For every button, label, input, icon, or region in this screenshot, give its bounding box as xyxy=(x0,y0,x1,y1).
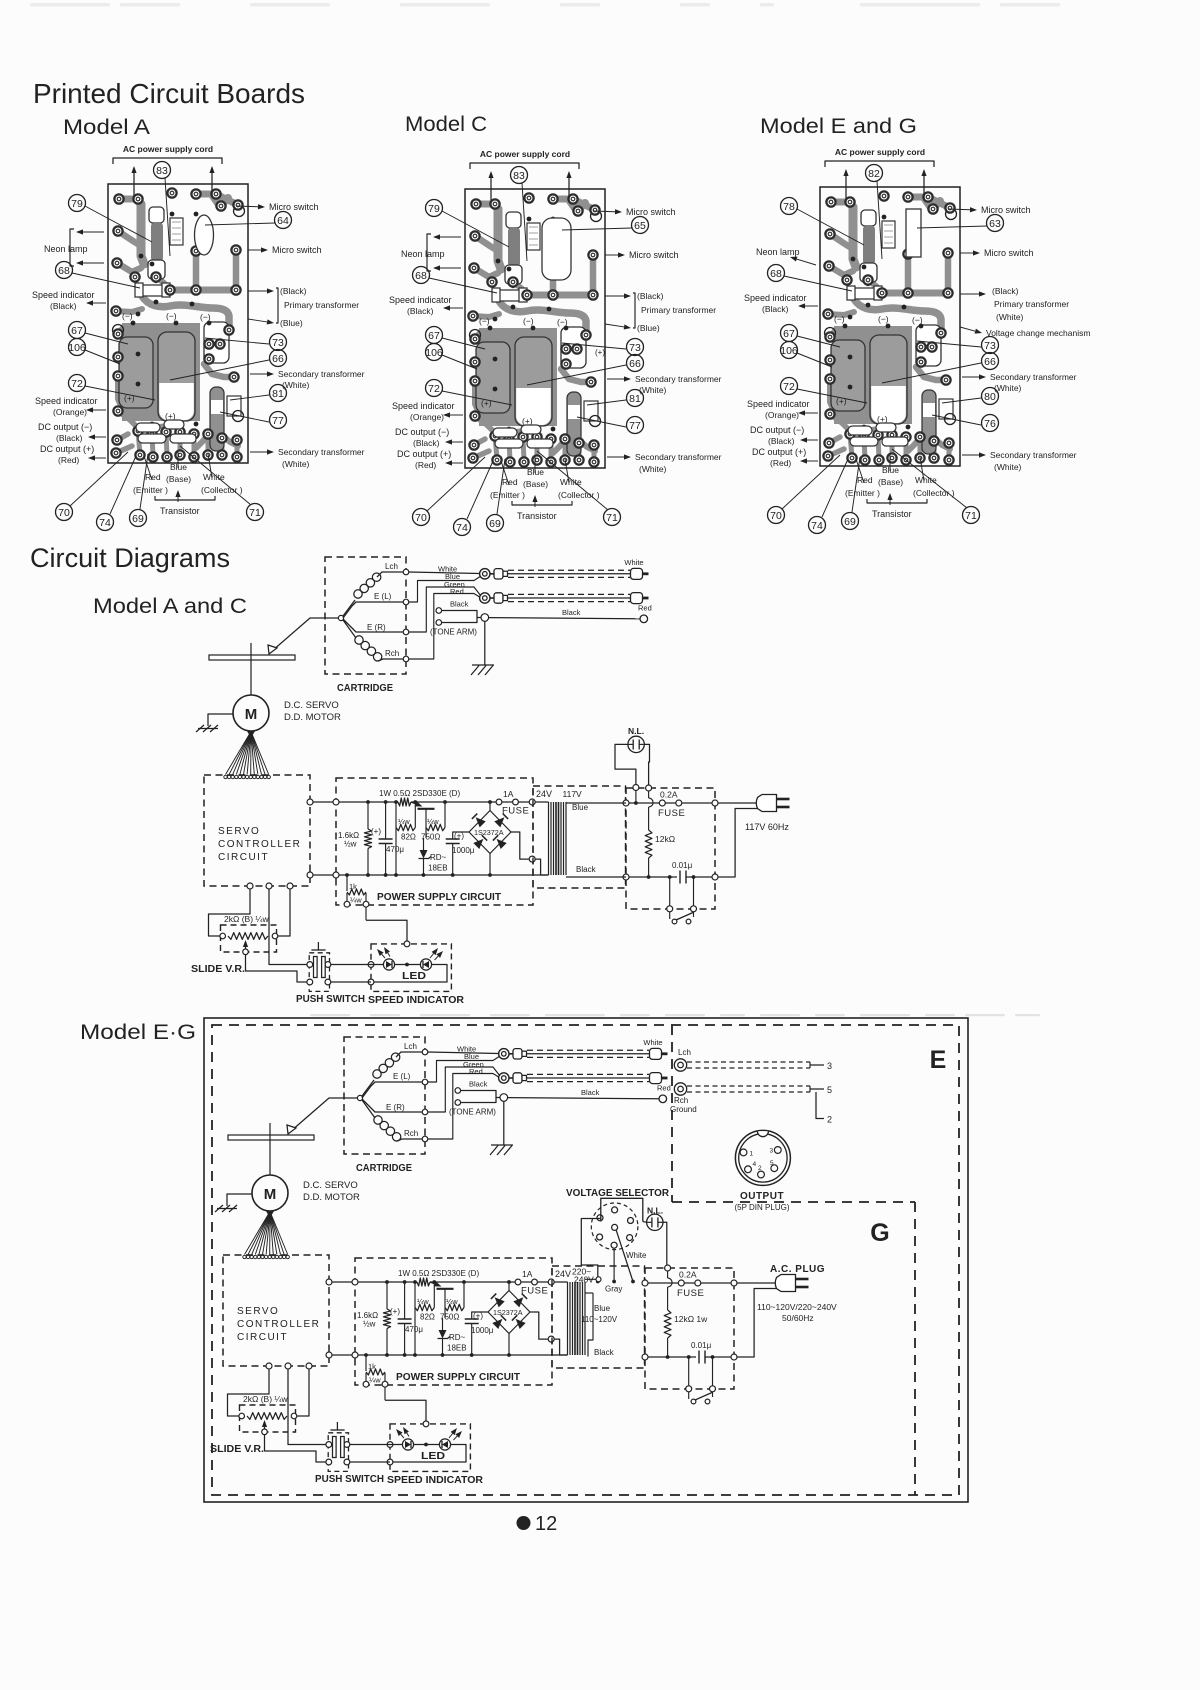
svg-text:117V 60Hz: 117V 60Hz xyxy=(745,822,789,832)
callout 65 xyxy=(632,217,649,234)
wavy trace xyxy=(854,299,941,331)
tone arm xyxy=(272,618,339,651)
capacitor 470u xyxy=(404,1282,406,1319)
power supply circuit box xyxy=(336,778,533,905)
right-side components xyxy=(561,327,586,368)
svg-text:Black: Black xyxy=(581,1088,600,1097)
svg-text:DC output (−): DC output (−) xyxy=(395,427,449,437)
svg-text:E (R): E (R) xyxy=(386,1103,405,1112)
svg-text:68: 68 xyxy=(770,268,782,280)
svg-text:¼w: ¼w xyxy=(398,817,410,826)
callout 106 xyxy=(426,344,443,361)
svg-text:CARTRIDGE: CARTRIDGE xyxy=(337,682,393,694)
svg-text:(Black): (Black) xyxy=(407,306,434,316)
coil R xyxy=(355,636,363,644)
svg-text:4: 4 xyxy=(753,1161,757,1168)
AC cord wires xyxy=(845,176,847,199)
power transistor copper zone xyxy=(122,323,200,421)
relay / resistor / lamp components xyxy=(149,207,164,223)
svg-text:Speed indicator: Speed indicator xyxy=(32,290,95,300)
svg-text:FUSE: FUSE xyxy=(677,1288,704,1299)
svg-text:(+): (+) xyxy=(595,348,605,357)
power switch xyxy=(669,877,671,906)
callout 74 xyxy=(97,514,114,531)
svg-text:82: 82 xyxy=(868,168,880,180)
svg-text:(White): (White) xyxy=(994,462,1022,472)
svg-text:DC output (−): DC output (−) xyxy=(38,422,92,432)
svg-text:82Ω: 82Ω xyxy=(401,833,416,842)
svg-text:65: 65 xyxy=(634,220,646,232)
svg-text:71: 71 xyxy=(606,512,618,524)
svg-text:Black: Black xyxy=(562,608,581,617)
svg-text:(Black): (Black) xyxy=(56,433,83,443)
tone arm ground lug xyxy=(436,608,442,614)
svg-text:(−): (−) xyxy=(523,316,534,326)
callout 79 xyxy=(426,200,443,217)
svg-text:5: 5 xyxy=(827,1085,832,1095)
cartridge wiring xyxy=(357,1095,362,1100)
copper traces xyxy=(831,202,853,211)
E/G outer dashed box xyxy=(212,1025,959,1495)
+B top rail xyxy=(310,801,398,803)
svg-text:AC power supply cord: AC power supply cord xyxy=(123,144,213,154)
svg-text:82Ω: 82Ω xyxy=(420,1313,435,1322)
transformer box xyxy=(533,786,626,888)
svg-text:80: 80 xyxy=(984,391,996,403)
motor wire fan xyxy=(245,1212,271,1255)
svg-text:71: 71 xyxy=(965,510,977,522)
svg-text:5: 5 xyxy=(770,1160,774,1167)
callout 74 xyxy=(809,517,826,534)
svg-text:Primary transformer: Primary transformer xyxy=(284,300,359,310)
svg-text:Speed indicator: Speed indicator xyxy=(747,399,810,409)
callout 77 xyxy=(270,412,287,429)
svg-text:PUSH SWITCH: PUSH SWITCH xyxy=(296,993,365,1005)
svg-text:1000μ: 1000μ xyxy=(452,846,475,855)
svg-text:DC output (−): DC output (−) xyxy=(750,425,804,435)
svg-text:SERVO: SERVO xyxy=(237,1306,279,1317)
motor M xyxy=(252,1175,288,1211)
callout 81 xyxy=(270,385,287,402)
svg-text:50/60Hz: 50/60Hz xyxy=(782,1313,814,1323)
svg-text:¼w: ¼w xyxy=(446,1297,458,1306)
svg-text:12kΩ 1w: 12kΩ 1w xyxy=(674,1314,708,1324)
svg-text:G: G xyxy=(870,1219,889,1247)
callout 80 xyxy=(982,388,999,405)
callout 63 xyxy=(987,215,1004,232)
coil R xyxy=(374,1116,382,1124)
svg-text:70: 70 xyxy=(58,507,70,519)
right-side components xyxy=(204,322,229,363)
svg-text:(Red): (Red) xyxy=(415,460,436,470)
svg-text:OUTPUT: OUTPUT xyxy=(740,1191,784,1202)
svg-text:3: 3 xyxy=(770,1148,774,1155)
primary transformer labels xyxy=(605,295,624,297)
svg-text:470μ: 470μ xyxy=(386,845,404,854)
svg-text:Micro switch: Micro switch xyxy=(981,205,1031,215)
svg-text:(−): (−) xyxy=(122,311,133,321)
svg-text:2: 2 xyxy=(758,1165,762,1172)
tone arm ground lug xyxy=(455,1088,461,1094)
micro switch (63) xyxy=(906,209,921,257)
svg-text:Circuit Diagrams: Circuit Diagrams xyxy=(30,543,230,573)
svg-text:Black: Black xyxy=(594,1348,615,1357)
callout 66 xyxy=(270,350,287,367)
callout 69 xyxy=(487,515,504,532)
fuse 0.2A xyxy=(659,800,665,806)
svg-text:(White): (White) xyxy=(994,383,1022,393)
power transformer xyxy=(548,802,550,875)
callout 67 xyxy=(69,322,86,339)
svg-text:D.C. SERVO: D.C. SERVO xyxy=(284,700,339,711)
speed indicator LED box xyxy=(390,1424,470,1472)
primary transformer labels xyxy=(960,293,979,295)
svg-text:¼w: ¼w xyxy=(417,1297,429,1306)
svg-text:LED: LED xyxy=(421,1451,445,1462)
svg-text:CIRCUIT: CIRCUIT xyxy=(218,852,269,863)
transistor 2SD330E xyxy=(411,802,416,804)
callout 71 xyxy=(247,504,264,521)
svg-text:66: 66 xyxy=(984,356,996,368)
relay / resistor / lamp components xyxy=(861,210,876,226)
resistor 1.6k xyxy=(367,802,369,829)
cartridge box xyxy=(325,557,406,674)
svg-text:81: 81 xyxy=(272,388,284,400)
callout 106 xyxy=(781,342,798,359)
svg-text:D.D. MOTOR: D.D. MOTOR xyxy=(303,1192,360,1203)
svg-text:(−): (−) xyxy=(479,316,490,326)
callout 71 xyxy=(604,509,621,526)
svg-text:(−): (−) xyxy=(912,315,923,325)
cable to pin 3 xyxy=(687,1061,810,1063)
svg-text:AC power supply cord: AC power supply cord xyxy=(835,147,925,157)
right-side components xyxy=(916,325,941,366)
0V bottom rail xyxy=(310,874,549,876)
svg-text:(Orange): (Orange) xyxy=(53,407,87,417)
svg-text:E (L): E (L) xyxy=(393,1072,411,1081)
PCB board outline xyxy=(108,184,248,463)
push switch xyxy=(309,953,329,992)
primary transformer labels xyxy=(248,290,267,292)
svg-text:(White): (White) xyxy=(282,380,310,390)
power transformer xyxy=(567,1282,569,1355)
callout 70 xyxy=(56,504,73,521)
servo output wires xyxy=(266,1363,272,1369)
svg-text:¼w: ¼w xyxy=(427,817,439,826)
callout 69 xyxy=(130,510,147,527)
svg-text:Secondary transformer: Secondary transformer xyxy=(990,372,1077,382)
svg-text:White: White xyxy=(626,1251,647,1260)
micro switch label 2 xyxy=(960,252,973,254)
callout 74 xyxy=(454,519,471,536)
svg-text:78: 78 xyxy=(783,201,795,213)
svg-text:SLIDE V.R.: SLIDE V.R. xyxy=(191,964,245,975)
callout 82 xyxy=(866,165,883,182)
svg-text:(Base): (Base) xyxy=(878,477,903,487)
svg-text:67: 67 xyxy=(428,330,440,342)
ground (tone arm) xyxy=(484,621,486,665)
resistor 12k xyxy=(646,785,652,791)
heat sink plates xyxy=(119,337,153,408)
svg-text:79: 79 xyxy=(71,198,83,210)
svg-text:RD~: RD~ xyxy=(430,853,447,862)
svg-text:66: 66 xyxy=(629,358,641,370)
svg-text:Rch: Rch xyxy=(385,649,399,658)
svg-text:66: 66 xyxy=(272,353,284,365)
svg-text:Red: Red xyxy=(450,587,464,596)
svg-text:68: 68 xyxy=(58,265,70,277)
svg-text:(−): (−) xyxy=(878,314,889,324)
motor ground xyxy=(227,1194,252,1206)
RCA plug L xyxy=(480,569,490,579)
callout 106 xyxy=(69,339,86,356)
callout 66 xyxy=(982,353,999,370)
svg-text:(White): (White) xyxy=(282,459,310,469)
N.L. leads xyxy=(643,1221,647,1224)
svg-text:71: 71 xyxy=(249,507,261,519)
shielded cable R xyxy=(527,1073,649,1075)
callout 83 xyxy=(154,162,171,179)
svg-text:(Blue): (Blue) xyxy=(280,318,303,328)
resistor 1.6k xyxy=(386,1282,388,1309)
callout 78 xyxy=(781,198,798,215)
callout 79 xyxy=(69,195,86,212)
heat sink plates xyxy=(476,342,510,413)
solder pads xyxy=(471,199,480,208)
svg-text:0.01μ: 0.01μ xyxy=(691,1341,712,1350)
servo output wires xyxy=(247,883,253,889)
secondary transformer label 1 xyxy=(962,376,979,378)
svg-text:Model C: Model C xyxy=(405,113,487,136)
svg-text:83: 83 xyxy=(156,165,168,177)
svg-text:Transistor: Transistor xyxy=(517,511,557,521)
svg-text:24V: 24V xyxy=(536,789,552,799)
svg-text:FUSE: FUSE xyxy=(521,1286,548,1297)
svg-text:Ground: Ground xyxy=(670,1105,697,1114)
AC cord wires xyxy=(133,173,135,196)
svg-text:Micro switch: Micro switch xyxy=(629,250,679,260)
svg-text:POWER SUPPLY CIRCUIT: POWER SUPPLY CIRCUIT xyxy=(396,1371,521,1383)
svg-text:Speed indicator: Speed indicator xyxy=(35,396,98,406)
wavy trace xyxy=(499,301,586,333)
svg-text:Lch: Lch xyxy=(385,562,398,571)
solder pads xyxy=(114,194,123,203)
svg-text:DC output (+): DC output (+) xyxy=(397,449,451,459)
cable end plug R xyxy=(631,593,643,604)
mounting holes xyxy=(234,206,245,217)
svg-text:73: 73 xyxy=(272,337,284,349)
cable end plug L xyxy=(631,568,643,579)
callout 81 xyxy=(627,390,644,407)
svg-text:64: 64 xyxy=(277,215,289,227)
ground (tone arm) xyxy=(503,1101,505,1145)
LED 2 xyxy=(420,959,431,970)
svg-text:Secondary transformer: Secondary transformer xyxy=(278,447,365,457)
callout 71 xyxy=(963,507,980,524)
callout 72 xyxy=(69,375,86,392)
copper traces xyxy=(119,199,141,208)
callout 70 xyxy=(768,507,785,524)
copper traces xyxy=(476,204,498,213)
callout 67 xyxy=(781,325,798,342)
callout 77 xyxy=(627,417,644,434)
svg-text:2kΩ (B) ¼w: 2kΩ (B) ¼w xyxy=(243,1394,288,1404)
svg-text:1S2372A: 1S2372A xyxy=(493,1308,523,1317)
svg-text:D.C. SERVO: D.C. SERVO xyxy=(303,1180,358,1191)
svg-text:1000μ: 1000μ xyxy=(471,1326,494,1335)
svg-text:Primary transformer: Primary transformer xyxy=(641,305,716,315)
capacitor 1000u xyxy=(472,1312,488,1319)
svg-text:D.D. MOTOR: D.D. MOTOR xyxy=(284,712,341,723)
svg-text:(Emitter ): (Emitter ) xyxy=(845,488,880,498)
svg-text:2: 2 xyxy=(827,1115,832,1125)
resistor 0.5 ohm xyxy=(398,798,411,806)
svg-text:CARTRIDGE: CARTRIDGE xyxy=(356,1162,412,1174)
black wire xyxy=(508,1098,659,1099)
fuse rail xyxy=(645,1282,679,1284)
resistor 12k xyxy=(665,1265,671,1271)
svg-text:M: M xyxy=(245,706,258,723)
svg-text:¼w: ¼w xyxy=(350,896,362,905)
0V bottom rail xyxy=(329,1354,568,1356)
svg-text:CONTROLLER: CONTROLLER xyxy=(237,1319,320,1330)
svg-text:(Black): (Black) xyxy=(637,291,664,301)
svg-text:0.01μ: 0.01μ xyxy=(672,861,693,870)
cartridge terminals xyxy=(422,1049,428,1055)
bottom small components xyxy=(493,428,517,437)
power switch xyxy=(688,1357,690,1386)
capacitor 1000u xyxy=(453,832,469,839)
cable end plug L xyxy=(650,1048,662,1059)
coil L xyxy=(354,590,362,598)
motor M xyxy=(233,695,269,731)
svg-text:Black: Black xyxy=(576,865,597,874)
callout 73 xyxy=(982,337,999,354)
callout 66 xyxy=(627,355,644,372)
svg-text:(Red): (Red) xyxy=(58,455,79,465)
svg-text:69: 69 xyxy=(489,518,501,530)
svg-text:Neon lamp: Neon lamp xyxy=(44,244,88,254)
svg-text:Blue: Blue xyxy=(882,465,899,475)
svg-text:Black: Black xyxy=(450,600,469,609)
svg-text:73: 73 xyxy=(629,342,641,354)
svg-text:69: 69 xyxy=(844,516,856,528)
micro switch label 2 xyxy=(248,249,261,251)
fuse holder xyxy=(849,288,880,299)
fuse rail xyxy=(626,802,660,804)
svg-text:White: White xyxy=(915,475,937,485)
svg-text:Model A: Model A xyxy=(63,116,150,139)
resistor 750 ohm xyxy=(444,802,446,828)
svg-text:12kΩ: 12kΩ xyxy=(655,834,675,844)
svg-text:(Base): (Base) xyxy=(523,479,548,489)
AC plug xyxy=(737,1282,776,1284)
svg-text:106: 106 xyxy=(425,347,443,359)
svg-text:(+): (+) xyxy=(371,827,381,836)
svg-text:Rch: Rch xyxy=(404,1129,418,1138)
mounting holes xyxy=(591,211,602,222)
callout 64 xyxy=(275,212,292,229)
fuse 1A xyxy=(496,799,502,805)
svg-text:106: 106 xyxy=(780,345,798,357)
svg-text:(Black): (Black) xyxy=(762,304,789,314)
svg-text:(White): (White) xyxy=(639,464,667,474)
shielded cable L xyxy=(527,1049,649,1051)
mounting holes xyxy=(946,209,957,220)
callout 76 xyxy=(982,415,999,432)
fuse 1A xyxy=(515,1279,521,1285)
svg-text:1W 0.5Ω 2SD330E (D): 1W 0.5Ω 2SD330E (D) xyxy=(398,1269,479,1278)
svg-text:1k: 1k xyxy=(368,1362,376,1371)
svg-text:67: 67 xyxy=(783,328,795,340)
fuse box xyxy=(626,788,715,909)
micro switch label 1 xyxy=(948,208,970,211)
svg-text:1k: 1k xyxy=(349,882,357,891)
svg-text:VOLTAGE SELECTOR: VOLTAGE SELECTOR xyxy=(566,1187,669,1199)
svg-text:Micro switch: Micro switch xyxy=(984,248,1034,258)
fuse holder xyxy=(137,285,168,296)
svg-text:FUSE: FUSE xyxy=(502,806,529,817)
shielded cable R xyxy=(508,593,630,595)
callout 72 xyxy=(426,380,443,397)
AC return wire xyxy=(737,1289,776,1358)
svg-text:Micro switch: Micro switch xyxy=(272,245,322,255)
capacitor 0.01u xyxy=(698,1351,700,1364)
svg-text:Primary transformer: Primary transformer xyxy=(994,299,1069,309)
svg-text:Red: Red xyxy=(657,1084,671,1093)
svg-text:PUSH SWITCH: PUSH SWITCH xyxy=(315,1473,384,1485)
svg-text:Secondary transformer: Secondary transformer xyxy=(635,452,722,462)
svg-text:(Orange): (Orange) xyxy=(410,412,444,422)
svg-text:LED: LED xyxy=(402,971,426,982)
svg-text:SERVO: SERVO xyxy=(218,826,260,837)
svg-text:Blue: Blue xyxy=(594,1304,611,1313)
zener RD-18EB xyxy=(425,828,427,839)
svg-text:Model E·G: Model E·G xyxy=(80,1021,196,1044)
svg-text:Micro switch: Micro switch xyxy=(626,207,676,217)
motor wire fan xyxy=(226,732,252,775)
capacitor 0.01u xyxy=(679,871,681,884)
LED 2 xyxy=(439,1439,450,1450)
svg-text:Lch: Lch xyxy=(404,1042,417,1051)
callout 70 xyxy=(413,509,430,526)
page number xyxy=(517,1516,531,1530)
svg-text:(−): (−) xyxy=(557,317,568,327)
svg-text:RD~: RD~ xyxy=(449,1333,466,1342)
svg-text:18EB: 18EB xyxy=(428,864,448,873)
svg-text:(TONE ARM): (TONE ARM) xyxy=(430,628,477,637)
selector left wire xyxy=(581,1219,601,1282)
E/G outer solid box xyxy=(204,1018,968,1502)
svg-text:(Black): (Black) xyxy=(992,286,1019,296)
svg-text:(Emitter ): (Emitter ) xyxy=(490,490,525,500)
E region divider xyxy=(671,1025,673,1202)
svg-text:White: White xyxy=(624,558,643,567)
AC cord wires xyxy=(490,178,492,201)
LED 1 xyxy=(402,1439,413,1450)
svg-text:Gray: Gray xyxy=(605,1285,622,1294)
cartridge wiring xyxy=(338,615,343,620)
svg-text:(+): (+) xyxy=(473,1312,483,1321)
svg-text:E (R): E (R) xyxy=(367,623,386,632)
micro switch label 2 xyxy=(605,254,618,256)
black wire xyxy=(489,618,640,619)
svg-text:1: 1 xyxy=(750,1151,754,1158)
svg-text:FUSE: FUSE xyxy=(658,808,685,819)
svg-text:79: 79 xyxy=(428,203,440,215)
svg-text:Red: Red xyxy=(502,477,518,487)
svg-text:AC power supply cord: AC power supply cord xyxy=(480,149,570,159)
